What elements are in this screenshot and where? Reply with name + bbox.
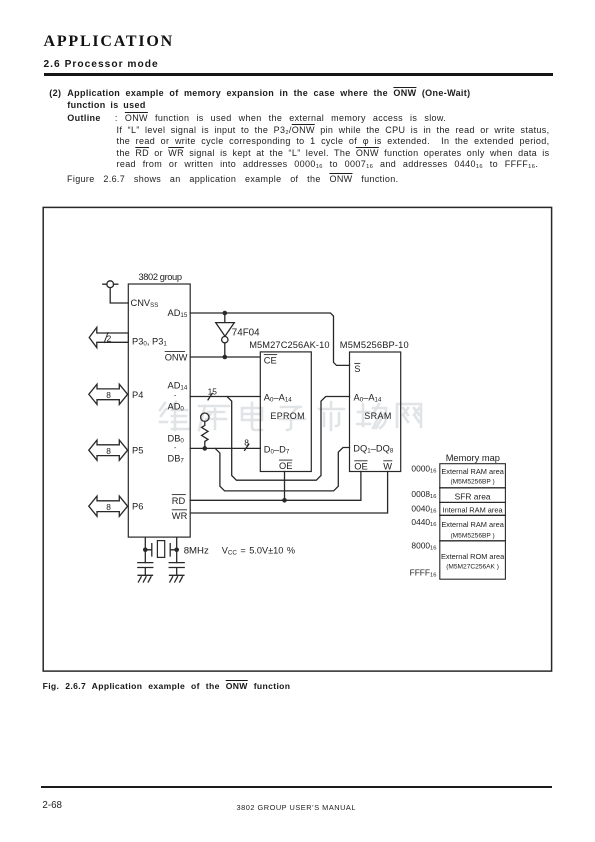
svg-text:ONW: ONW	[165, 352, 188, 362]
svg-text:800016: 800016	[411, 540, 436, 551]
pull-up resistor terminal circle	[201, 413, 209, 421]
pin overline OE (EPROM)	[279, 459, 292, 461]
svg-text:000816: 000816	[411, 489, 436, 500]
svg-text:DB7: DB7	[168, 454, 185, 465]
svg-text:M5M27C256AK-10: M5M27C256AK-10	[249, 340, 329, 350]
svg-text:External RAM area: External RAM area	[441, 520, 504, 529]
inverter bubble	[222, 337, 228, 343]
footer rule	[41, 786, 552, 788]
svg-text:8: 8	[106, 390, 111, 400]
svg-text:A0–A14: A0–A14	[354, 392, 382, 403]
pin overline W	[383, 460, 392, 462]
EPROM body	[260, 352, 311, 472]
crystal X1 leads	[145, 537, 176, 563]
capacitor C1	[138, 563, 153, 576]
svg-text:AD15: AD15	[168, 308, 188, 319]
page number	[42, 800, 62, 811]
svg-text:DQ1–DQ8: DQ1–DQ8	[353, 444, 394, 455]
capacitor C2	[169, 563, 184, 576]
wire RD to SRAM OE	[190, 472, 361, 501]
pin overline CE	[264, 354, 277, 356]
crystal X1 body	[157, 541, 164, 558]
wire address bus branch around EPROM to SRAM A0-A14	[227, 397, 350, 481]
svg-text:DB0: DB0	[168, 433, 185, 444]
svg-text:FFFF16: FFFF16	[410, 567, 437, 578]
wire EPROM OE down	[284, 472, 286, 501]
paragraph	[49, 88, 61, 98]
node junction xtal right	[174, 548, 179, 553]
svg-text:004016: 004016	[411, 503, 436, 514]
wire WR to SRAM W	[190, 472, 387, 514]
svg-text:CE: CE	[264, 355, 277, 365]
svg-text:VCC = 5.0V±10 %: VCC = 5.0V±10 %	[222, 545, 295, 556]
ground left	[138, 575, 152, 582]
svg-text:W: W	[383, 462, 392, 472]
pin overline S	[354, 362, 360, 364]
wire CNVss to chip	[110, 288, 128, 303]
wire data bus DB0-DB7 to EPROM D0-D7	[190, 447, 260, 449]
bus slash 15	[208, 393, 212, 399]
wire inverter output to ONW	[224, 343, 226, 357]
wire CNVss terminal bar	[103, 283, 118, 285]
svg-text:2: 2	[107, 334, 112, 344]
svg-text:OE: OE	[279, 461, 292, 471]
wire address bus AD0-AD14 to EPROM A0-A14	[190, 396, 260, 398]
svg-text:15: 15	[208, 386, 218, 396]
node junction resistor/DB	[203, 446, 208, 451]
svg-text:044016: 044016	[411, 517, 436, 528]
node junction ONW	[223, 355, 228, 360]
port arrow P4 (8-bit)	[89, 384, 128, 404]
svg-text:External RAM area: External RAM area	[441, 467, 504, 476]
svg-text:-: -	[174, 392, 177, 399]
manual name	[237, 803, 356, 812]
svg-text:8: 8	[244, 438, 249, 448]
svg-text:Internal RAM area: Internal RAM area	[443, 505, 504, 514]
svg-text:D0–D7: D0–D7	[264, 445, 290, 456]
IC 3802 group body	[128, 284, 190, 537]
svg-text:P6: P6	[132, 502, 143, 512]
inverter 74F04	[216, 313, 235, 336]
svg-text:CNVSS: CNVSS	[131, 298, 159, 309]
wire ONW to EPROM CE	[190, 356, 260, 358]
svg-text:P30, P31: P30, P31	[132, 336, 167, 347]
ground right	[170, 575, 184, 582]
svg-text:-: -	[174, 445, 177, 452]
svg-text:000016: 000016	[411, 464, 436, 475]
title APPLICATION	[44, 33, 174, 51]
svg-text:EPROM: EPROM	[270, 411, 305, 421]
svg-text:M5M5256BP-10: M5M5256BP-10	[340, 340, 409, 350]
svg-text:(M5M5256BP ): (M5M5256BP )	[450, 478, 494, 485]
svg-text:AD14: AD14	[168, 381, 188, 392]
svg-text:P5: P5	[132, 446, 143, 456]
pin overline WR	[172, 509, 187, 511]
svg-text:OE: OE	[354, 462, 367, 472]
svg-text:(M5M27C256AK ): (M5M27C256AK )	[446, 563, 499, 570]
node junction AD15/inverter	[223, 311, 228, 316]
crystal X1 electrodes	[145, 544, 176, 556]
bus slash 8	[245, 444, 249, 450]
pin overline ONW	[165, 351, 185, 353]
CNVss terminal circle	[107, 281, 114, 288]
pin overline RD	[172, 494, 186, 496]
bus slash on P3 arrow	[104, 333, 108, 343]
svg-text:A0–A14: A0–A14	[264, 392, 292, 403]
svg-text:8: 8	[106, 502, 111, 512]
wire data bus branch around EPROM to SRAM DQ1-DQ8	[215, 448, 349, 491]
thick rule	[44, 73, 553, 77]
port arrow P6 (8-bit)	[89, 496, 128, 516]
figure border frame	[43, 207, 551, 671]
watermark	[160, 402, 421, 430]
port arrow P5 (8-bit)	[89, 440, 128, 460]
svg-text:External ROM area: External ROM area	[441, 552, 505, 561]
figure caption	[43, 681, 291, 691]
svg-text:RD: RD	[172, 496, 186, 506]
svg-text:AD0: AD0	[168, 402, 185, 413]
memory map table frame	[440, 464, 506, 580]
svg-text:SFR area: SFR area	[455, 491, 491, 501]
section heading	[44, 59, 159, 70]
port arrow P3 (2-bit)	[89, 327, 128, 347]
svg-text:74F04: 74F04	[232, 327, 260, 338]
node junction xtal left	[143, 548, 148, 553]
svg-text:S: S	[354, 364, 360, 374]
svg-text:8: 8	[106, 446, 111, 456]
svg-text:SRAM: SRAM	[364, 411, 391, 421]
svg-text:3802 group: 3802 group	[139, 272, 183, 282]
svg-text:8MHz: 8MHz	[184, 545, 209, 556]
resistor R1 zigzag	[202, 421, 208, 446]
memory map row dividers	[440, 488, 506, 541]
pin overline OE (SRAM)	[354, 460, 367, 462]
svg-text:(M5M5256BP ): (M5M5256BP )	[450, 532, 494, 539]
svg-text:Memory map: Memory map	[446, 453, 500, 463]
svg-text:WR: WR	[172, 511, 188, 521]
node junction RD/OE	[282, 498, 287, 503]
SRAM body	[350, 352, 401, 472]
svg-text:P4: P4	[132, 390, 143, 400]
wire AD15 to SRAM S	[190, 313, 349, 365]
